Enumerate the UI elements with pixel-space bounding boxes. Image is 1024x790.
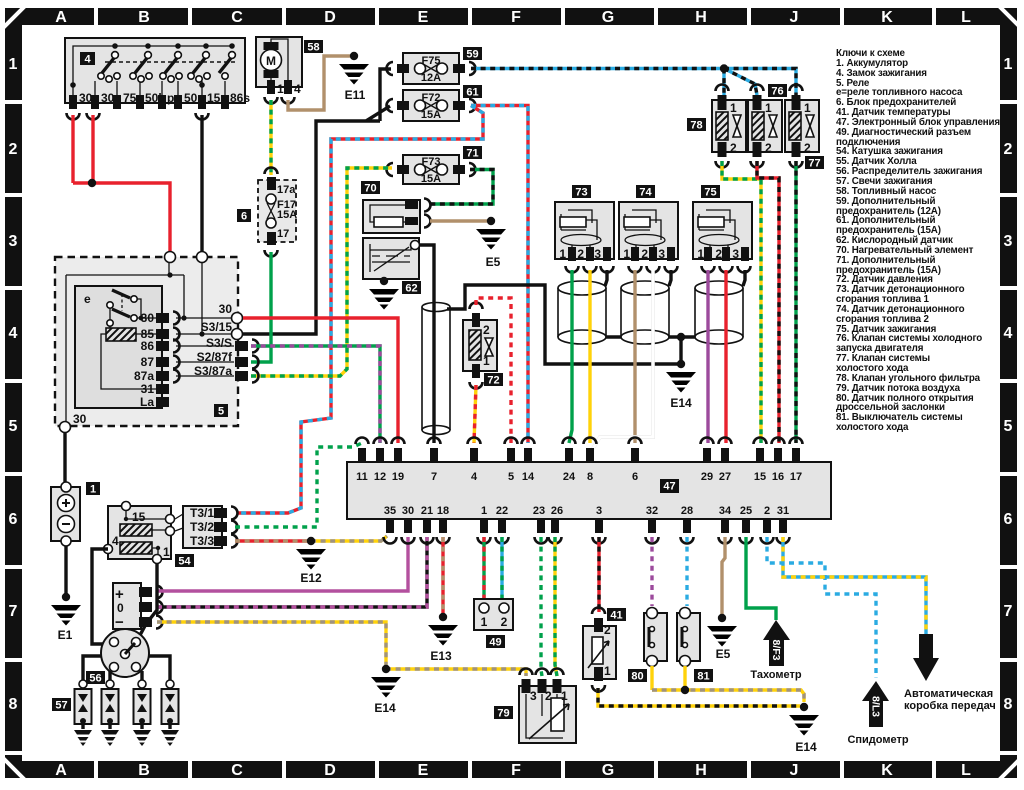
svg-text:F75: F75 <box>422 55 441 67</box>
svg-text:1: 1 <box>561 689 568 703</box>
knock sensor 74 <box>619 185 678 273</box>
svg-text:30: 30 <box>101 91 115 105</box>
wire: F72 out to coil T3/1 (red/blue) <box>237 106 483 514</box>
svg-text:E12: E12 <box>300 571 322 585</box>
knock sensor 73 <box>555 185 614 273</box>
wire: T3/3 to E12 (red/tan) <box>235 539 311 542</box>
svg-text:77: 77 <box>808 158 820 170</box>
svg-text:D: D <box>324 762 336 779</box>
svg-text:2: 2 <box>730 141 737 155</box>
svg-text:K: K <box>881 762 893 779</box>
svg-text:p: p <box>167 91 174 105</box>
ignition sensor 75 <box>693 185 752 273</box>
relay e inner box <box>75 286 162 408</box>
svg-text:M: M <box>266 54 276 68</box>
wire: ECU 34 to E5 (tan) <box>722 537 725 614</box>
svg-text:86s: 86s <box>230 91 250 105</box>
svg-text:2: 2 <box>804 141 811 155</box>
svg-text:A: A <box>55 762 67 779</box>
battery 1 <box>65 433 66 594</box>
svg-text:25: 25 <box>740 505 752 517</box>
svg-text:73: 73 <box>575 187 587 199</box>
svg-text:8/L3: 8/L3 <box>870 696 882 717</box>
svg-text:1: 1 <box>604 664 611 678</box>
wire: cylinder shield bus (black) <box>605 270 745 337</box>
svg-text:78: 78 <box>690 120 702 132</box>
node: red junction <box>88 179 96 187</box>
carbon filter valve 78 <box>687 85 746 168</box>
svg-text:La: La <box>140 395 154 409</box>
wire: S3/S to ECU pin12 (green/violet) <box>251 346 380 443</box>
svg-text:49: 49 <box>489 637 501 649</box>
relay right connectors 30 S3/15 S3/S S2/87f S3/87a <box>232 313 243 324</box>
wire: 77 pin2 to ECU 17 (green/black) <box>794 161 797 443</box>
ground E14 lower-left <box>371 665 401 698</box>
svg-text:S2/87f: S2/87f <box>197 350 233 364</box>
svg-text:18: 18 <box>437 505 449 517</box>
svg-text:34: 34 <box>719 505 732 517</box>
svg-text:35: 35 <box>384 505 396 517</box>
svg-text:E11: E11 <box>345 88 366 102</box>
relay coil <box>106 328 136 341</box>
wire: 74 pin2 to ECU 8 (white) <box>592 270 653 450</box>
svg-text:79: 79 <box>497 708 509 720</box>
svg-text:19: 19 <box>392 471 404 483</box>
svg-text:E14: E14 <box>374 701 396 715</box>
svg-text:15A: 15A <box>421 173 441 185</box>
svg-text:15: 15 <box>132 510 146 524</box>
ground E14 right <box>789 703 819 736</box>
wire: 75 pin1 to ECU 29 (violet) <box>706 270 709 443</box>
svg-text:1: 1 <box>483 354 490 368</box>
wire: 72 pin2 to ECU 5 (red/white) <box>476 298 511 443</box>
svg-text:2: 2 <box>577 247 584 261</box>
ground E12 <box>296 537 326 570</box>
wire: ECU 31 to gearbox (blue/yellow) <box>783 537 926 634</box>
svg-text:47: 47 <box>663 481 675 493</box>
wire: motor pin1 to fuse 6 (yellow/green) <box>269 100 272 175</box>
ground E13 <box>428 613 458 646</box>
relay box bottom circle 30 <box>60 422 71 433</box>
svg-text:H: H <box>695 9 707 26</box>
svg-text:23: 23 <box>533 505 545 517</box>
svg-text:1: 1 <box>730 101 737 115</box>
svg-text:E5: E5 <box>716 647 731 661</box>
svg-text:22: 22 <box>496 505 508 517</box>
svg-text:87a: 87a <box>134 369 154 383</box>
svg-text:4: 4 <box>9 325 18 342</box>
svg-text:30: 30 <box>73 412 87 426</box>
wire: 80/81 to E14 right (yellow/tan) <box>652 666 804 702</box>
svg-text:1: 1 <box>481 505 487 517</box>
svg-text:5: 5 <box>9 418 18 435</box>
shield cylinder 1 <box>558 281 606 344</box>
wire: ECU 18 to E13 (red/tan) <box>441 537 444 613</box>
svg-text:2: 2 <box>9 141 18 158</box>
svg-text:8: 8 <box>1004 696 1013 713</box>
svg-text:E13: E13 <box>430 649 452 663</box>
fuel pump motor 58 <box>256 37 323 104</box>
svg-text:30: 30 <box>79 91 93 105</box>
svg-text:75: 75 <box>704 187 716 199</box>
fuse block 6 / F17 <box>237 168 297 257</box>
svg-text:H: H <box>695 762 707 779</box>
svg-text:71: 71 <box>466 148 478 160</box>
pressure sensor 72 <box>463 303 503 389</box>
wire: 41 to E14 right (yellow/black) <box>598 688 800 706</box>
fuse F72 (61) <box>387 85 483 121</box>
wire: ECU 26 to airflow 79 pin1 (yellow/green) <box>555 537 557 676</box>
throttle switch 80 <box>628 608 667 683</box>
svg-text:G: G <box>602 9 614 26</box>
svg-text:30: 30 <box>219 302 233 316</box>
svg-text:L: L <box>961 9 971 26</box>
svg-text:E1: E1 <box>58 628 73 642</box>
wire: ECU 32 to switch 80 (violet/white) <box>650 537 653 606</box>
wire: ECU 1 to diag 49 pin1 (green/red) <box>482 537 485 598</box>
svg-text:C: C <box>231 762 243 779</box>
svg-text:e: e <box>84 292 91 306</box>
wire: shield bus to E14 (black) <box>447 285 681 364</box>
svg-text:4: 4 <box>294 82 301 96</box>
wire: ECU 22 to diag 49 pin2 (blue/green) <box>500 537 503 598</box>
diagnostic connector 49 <box>474 599 513 649</box>
svg-text:0: 0 <box>117 601 124 615</box>
svg-text:1: 1 <box>623 247 630 261</box>
svg-text:31: 31 <box>141 382 155 396</box>
svg-text:4: 4 <box>112 534 119 548</box>
svg-text:76: 76 <box>771 86 783 98</box>
relay contacts <box>112 290 130 317</box>
svg-text:L: L <box>961 762 971 779</box>
svg-text:8: 8 <box>587 471 593 483</box>
cold start valve 76 <box>748 84 787 168</box>
svg-text:6: 6 <box>9 511 18 528</box>
svg-text:74: 74 <box>639 187 652 199</box>
svg-text:2: 2 <box>764 505 770 517</box>
idle valve 77 <box>785 85 824 170</box>
svg-text:3: 3 <box>594 247 601 261</box>
svg-text:E14: E14 <box>795 740 817 754</box>
svg-text:T3/1: T3/1 <box>190 506 214 520</box>
ground E5 <box>476 217 506 250</box>
svg-text:11: 11 <box>356 471 368 483</box>
heater element 70 <box>361 181 431 233</box>
svg-text:6: 6 <box>1004 511 1013 528</box>
svg-text:15A: 15A <box>421 109 441 121</box>
wire: heater 70 to E5 (tan) <box>430 219 487 222</box>
svg-text:1: 1 <box>697 247 704 261</box>
svg-text:75: 75 <box>123 91 137 105</box>
legend key text <box>836 49 1008 433</box>
svg-text:27: 27 <box>719 471 731 483</box>
svg-text:1: 1 <box>765 101 772 115</box>
svg-text:2: 2 <box>765 141 772 155</box>
fuse F73 (71) <box>387 146 483 185</box>
wire: relay 30 to ECU pin19 (red) <box>243 318 398 443</box>
node: shield junction <box>677 333 685 341</box>
svg-text:A: A <box>55 9 67 26</box>
svg-text:56: 56 <box>89 673 101 685</box>
svg-text:3: 3 <box>530 689 537 703</box>
wire: black from ignition 15 to relay <box>200 115 203 252</box>
ground E5 right <box>707 614 737 647</box>
ground E1 <box>51 593 81 626</box>
wire: 73 pin1 to ECU 24 (green) <box>569 270 572 443</box>
svg-text:58: 58 <box>307 42 319 54</box>
wire: E12 to ECU pin35 (yellow/tan) <box>311 536 387 541</box>
ground E14 mid <box>666 360 696 393</box>
wires: distributor to spark plugs <box>83 656 170 680</box>
relay 5 label <box>214 404 228 417</box>
svg-text:3: 3 <box>658 247 665 261</box>
svg-text:D: D <box>324 9 336 26</box>
svg-text:87: 87 <box>141 355 155 369</box>
wire: 74 pin1 to ECU 6 (tan) <box>633 270 636 443</box>
wire: 73 pin2 to ECU 8 (yellow) <box>588 270 591 443</box>
svg-text:17: 17 <box>790 471 802 483</box>
idle switch 81 <box>677 608 713 683</box>
svg-text:4: 4 <box>84 54 91 66</box>
svg-text:2: 2 <box>604 623 611 637</box>
airflow sensor 79 <box>494 669 576 743</box>
wire: ECU 28 to switch 81 (blue/white) <box>685 537 688 606</box>
wire: + to ECU pin30 (magenta) <box>157 537 408 591</box>
spark plugs 57 <box>52 680 179 746</box>
ECU control unit 47 <box>347 438 831 544</box>
svg-text:G: G <box>602 762 614 779</box>
ignition switch internals <box>67 43 251 119</box>
svg-text:50b: 50b <box>145 91 166 105</box>
svg-text:2: 2 <box>501 615 508 629</box>
wire: S3/87a to F73 left (yellow/green) <box>251 168 392 376</box>
shield cylinder 3 <box>695 281 743 344</box>
svg-text:1: 1 <box>559 247 566 261</box>
hall sender connector + 0 - <box>113 583 163 631</box>
svg-text:B: B <box>138 9 150 26</box>
svg-text:54: 54 <box>178 556 191 568</box>
svg-text:K: K <box>881 9 893 26</box>
automatic gearbox arrow <box>904 634 996 712</box>
svg-text:28: 28 <box>681 505 693 517</box>
wire: 72 pin1 to ECU 4 (yellow/red) <box>474 385 476 443</box>
svg-text:7: 7 <box>431 471 437 483</box>
ignition switch 4 box <box>65 38 245 103</box>
svg-text:5: 5 <box>218 406 224 418</box>
wire: oxygen sensor 62 to ECU pin7 (black) <box>419 245 434 443</box>
node: valve feed junction <box>720 64 728 72</box>
svg-text:E14: E14 <box>670 396 692 410</box>
speedometer arrow 8/L3 <box>847 681 908 746</box>
svg-text:59: 59 <box>466 49 478 61</box>
wire: F72 out to ECU pin14 (red/blue) <box>471 106 528 444</box>
wire: ECU 2 to speedometer (blue/white) <box>767 537 876 678</box>
wire: 78 pin2 to ECU 15 (yellow/green) <box>722 161 761 443</box>
temperature sensor 41 <box>583 608 626 692</box>
svg-text:2: 2 <box>545 689 552 703</box>
svg-text:14: 14 <box>522 471 535 483</box>
relay block 5 (dashed) <box>55 257 238 426</box>
svg-text:6: 6 <box>241 211 247 223</box>
svg-text:15: 15 <box>754 471 766 483</box>
svg-text:F: F <box>511 762 521 779</box>
wire: black net F75/F72 left to S3/15 <box>243 69 391 334</box>
svg-text:57: 57 <box>55 700 67 712</box>
svg-text:S3/S: S3/S <box>206 336 232 350</box>
svg-text:24: 24 <box>563 471 576 483</box>
svg-text:17a: 17a <box>277 184 296 196</box>
svg-text:17: 17 <box>277 228 289 240</box>
wire: ECU 25 to tachometer (green) <box>746 537 776 620</box>
svg-text:1: 1 <box>9 56 18 73</box>
wire: - to E14 to airflow 79 pin3 (yellow/tan) <box>157 622 526 676</box>
svg-text:коробка передач: коробка передач <box>904 700 996 712</box>
svg-text:3: 3 <box>9 233 18 250</box>
svg-text:Автоматическая: Автоматическая <box>904 688 993 700</box>
T3 connector block <box>175 506 238 548</box>
svg-text:86: 86 <box>141 339 155 353</box>
svg-text:1: 1 <box>277 82 284 96</box>
svg-text:26: 26 <box>551 505 563 517</box>
wire: 76 pin2 to ECU 16 (red/black) <box>757 161 779 443</box>
svg-text:Тахометр: Тахометр <box>750 669 801 681</box>
oxygen sensor 62 <box>363 238 421 295</box>
relay terminals <box>156 313 169 407</box>
ground E11 <box>339 52 369 85</box>
svg-text:12: 12 <box>374 471 386 483</box>
svg-text:50: 50 <box>184 91 198 105</box>
svg-text:B: B <box>138 762 150 779</box>
fuse F75 (59) <box>387 47 483 84</box>
distributor 56 <box>86 629 149 685</box>
svg-text:F72: F72 <box>422 92 441 104</box>
wire: F75 out to valves junction (blue/black) <box>471 69 796 96</box>
svg-text:J: J <box>790 9 799 26</box>
ignition coil 54 <box>104 502 195 568</box>
svg-text:15A: 15A <box>277 209 297 221</box>
svg-text:C: C <box>231 9 243 26</box>
wire: 0 to ECU pin21 (black/violet) <box>157 537 427 607</box>
svg-text:F73: F73 <box>422 156 441 168</box>
svg-text:S3/87a: S3/87a <box>194 364 232 378</box>
svg-text:1: 1 <box>481 615 488 629</box>
svg-text:7: 7 <box>9 603 18 620</box>
svg-text:2: 2 <box>483 323 490 337</box>
svg-text:F: F <box>511 9 521 26</box>
svg-text:J: J <box>790 762 799 779</box>
svg-text:E: E <box>418 9 429 26</box>
svg-text:41: 41 <box>610 610 622 622</box>
svg-text:29: 29 <box>701 471 713 483</box>
svg-text:2: 2 <box>715 247 722 261</box>
ground under 62 <box>369 277 399 310</box>
svg-text:3: 3 <box>596 505 602 517</box>
wire: red from ignition 30 pins to relay <box>73 115 170 252</box>
relay box top circles <box>165 252 176 263</box>
relay internal wiring <box>66 262 234 422</box>
svg-text:Спидометр: Спидометр <box>847 734 908 746</box>
svg-text:32: 32 <box>646 505 658 517</box>
svg-text:80: 80 <box>631 671 643 683</box>
svg-text:8: 8 <box>9 696 18 713</box>
svg-text:7: 7 <box>1004 603 1013 620</box>
tachometer arrow 8/F3 <box>750 620 801 681</box>
svg-text:16: 16 <box>772 471 784 483</box>
svg-text:30: 30 <box>402 505 414 517</box>
wire: ECU 23 to airflow 79 pin2 (green/white) <box>541 537 542 676</box>
wire: motor pin4 to E11 (tan) <box>288 56 350 110</box>
wire: F73 out to heater 70 (green/black) <box>430 170 493 205</box>
wire: 75 pin2 to ECU 27 (red) <box>724 270 727 443</box>
wire: fuse 6 to S2/87f (green) <box>251 252 271 362</box>
svg-text:21: 21 <box>421 505 433 517</box>
svg-text:3: 3 <box>732 247 739 261</box>
svg-text:8/F3: 8/F3 <box>770 639 782 660</box>
svg-text:S3/15: S3/15 <box>201 320 233 334</box>
svg-text:6: 6 <box>632 471 638 483</box>
svg-text:E: E <box>418 762 429 779</box>
svg-text:5: 5 <box>508 471 514 483</box>
svg-text:72: 72 <box>487 375 499 387</box>
svg-text:70: 70 <box>364 183 376 195</box>
node: 80/81 join <box>681 686 689 694</box>
wire: T3/2 to ECU pin11 (green/white) <box>235 443 362 527</box>
svg-text:30: 30 <box>141 311 155 325</box>
svg-text:12A: 12A <box>421 72 441 84</box>
svg-text:61: 61 <box>466 87 478 99</box>
wire: ECU 3 to temp sensor 41 (red/black) <box>597 537 600 612</box>
svg-text:T3/3: T3/3 <box>190 534 214 548</box>
svg-text:31: 31 <box>777 505 789 517</box>
svg-text:62: 62 <box>405 283 417 295</box>
svg-text:1: 1 <box>804 101 811 115</box>
shield cylinder 2 <box>621 281 669 344</box>
svg-text:1: 1 <box>90 484 96 496</box>
svg-text:1: 1 <box>163 545 170 559</box>
svg-text:81: 81 <box>697 671 709 683</box>
shield tube for oxygen sensor wire <box>422 303 450 435</box>
svg-text:T3/2: T3/2 <box>190 520 214 534</box>
svg-text:15: 15 <box>207 91 221 105</box>
svg-text:E5: E5 <box>486 255 501 269</box>
wire: coil 4 to distributor <box>92 549 157 644</box>
svg-text:2: 2 <box>641 247 648 261</box>
svg-text:4: 4 <box>471 471 478 483</box>
